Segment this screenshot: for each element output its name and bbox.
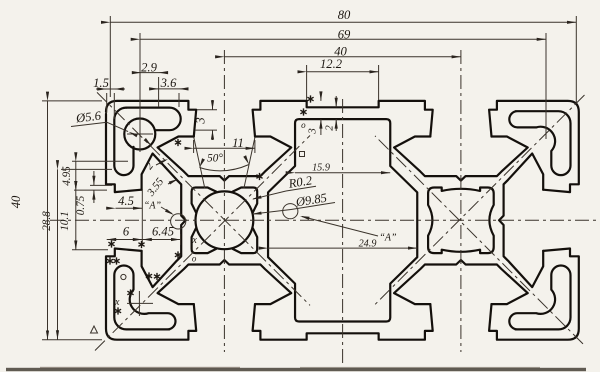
svg-text:x: x bbox=[191, 235, 197, 246]
svg-text:4.95: 4.95 bbox=[61, 166, 73, 186]
svg-text:3.6: 3.6 bbox=[160, 76, 177, 90]
vertical centerline right cell bbox=[460, 50, 462, 352]
dimension 40 line bbox=[224, 56, 461, 58]
central chamber cavity bbox=[268, 119, 417, 321]
svg-text:2: 2 bbox=[143, 160, 156, 172]
50 degree construction lines bbox=[194, 137, 205, 188]
dimension 40 left rotated bbox=[47, 101, 49, 340]
svg-text:15.9: 15.9 bbox=[312, 162, 330, 173]
right end slot cavity bbox=[499, 154, 543, 288]
svg-text:80: 80 bbox=[338, 8, 351, 22]
svg-text:“A”: “A” bbox=[379, 233, 397, 244]
top-left corner screw channel with bore Ø5.6 bbox=[124, 119, 155, 150]
svg-text:1.5: 1.5 bbox=[93, 76, 109, 90]
asterisk marks bbox=[175, 139, 181, 146]
dimension 3 rotated bbox=[212, 100, 214, 110]
left core bore with corner ear pockets bbox=[196, 191, 254, 249]
svg-text:“A”: “A” bbox=[144, 201, 162, 212]
svg-text:6: 6 bbox=[123, 225, 130, 239]
diagonal centerline TR-core bbox=[374, 95, 585, 306]
svg-text:x: x bbox=[114, 297, 120, 308]
dimension 4.5 bbox=[116, 207, 143, 209]
dimension 3.6 bbox=[150, 88, 188, 90]
svg-text:11: 11 bbox=[232, 136, 244, 150]
top slot cavity at left cell bbox=[158, 137, 292, 181]
svg-text:2.9: 2.9 bbox=[141, 60, 157, 74]
dimension 1.5 bbox=[96, 88, 125, 90]
diagonal centerline TL-core bbox=[97, 92, 310, 305]
svg-text:12.2: 12.2 bbox=[320, 57, 343, 71]
dimension 2.9 bbox=[132, 72, 168, 74]
svg-text:3.55: 3.55 bbox=[144, 175, 166, 199]
scan edge smudge bbox=[6, 368, 586, 371]
svg-text:24.9: 24.9 bbox=[359, 238, 377, 249]
bottom-left corner screw channel bbox=[114, 266, 175, 330]
svg-text:o: o bbox=[192, 254, 197, 264]
triangle mark bottom-left bbox=[91, 326, 98, 333]
svg-text:o: o bbox=[301, 120, 306, 130]
small hole marker in bottom-left channel bbox=[121, 274, 126, 279]
svg-text:40: 40 bbox=[9, 195, 23, 208]
dimension 15.9 bbox=[295, 172, 390, 174]
bottom slot cavity at right cell bbox=[394, 260, 528, 304]
svg-text:6.45: 6.45 bbox=[152, 225, 174, 239]
square mark center bbox=[300, 152, 305, 157]
svg-text:69: 69 bbox=[338, 27, 351, 41]
dimension 4.95 rotated bbox=[75, 162, 77, 191]
top slot cavity at right cell bbox=[394, 137, 528, 181]
left end slot cavity bbox=[142, 154, 186, 288]
dimension 11 bbox=[194, 147, 255, 149]
svg-text:50°: 50° bbox=[207, 153, 223, 165]
datum A left ball bbox=[171, 214, 186, 229]
profile outer boundary with slot openings bbox=[106, 101, 579, 340]
dimension 80 line bbox=[110, 21, 576, 23]
dimension 69 line bbox=[140, 38, 546, 40]
diagonal centerline BL-core bbox=[95, 136, 310, 351]
dimension 2 center bbox=[335, 96, 337, 107]
dimension 6 and 6.45 bbox=[107, 239, 181, 241]
bottom-right corner screw channel bbox=[509, 266, 570, 330]
datum A right ball bbox=[283, 204, 298, 219]
dimension 3 center bbox=[320, 94, 322, 101]
svg-text:3: 3 bbox=[194, 117, 208, 124]
svg-text:3: 3 bbox=[307, 128, 319, 135]
diagonal centerline BR-core bbox=[375, 136, 583, 344]
dimension 0.75 rotated bbox=[93, 171, 95, 185]
vertical centerline left cell bbox=[223, 50, 225, 352]
top-right corner screw channel bbox=[509, 111, 570, 175]
svg-text:0.75: 0.75 bbox=[75, 195, 87, 215]
vertical centerline middle bbox=[342, 99, 344, 365]
bottom slot cavity at left cell bbox=[158, 260, 292, 304]
dimension 24.9 bbox=[268, 247, 417, 249]
svg-text:4.5: 4.5 bbox=[118, 194, 134, 208]
dimension 12.2 line bbox=[307, 71, 379, 73]
right core pillow cavity bbox=[428, 188, 494, 254]
bottom-left bore centre ticks bbox=[127, 302, 153, 304]
dimension 10.1 rotated bbox=[75, 190, 77, 250]
svg-text:10.1: 10.1 bbox=[59, 211, 71, 231]
svg-text:2: 2 bbox=[324, 125, 336, 131]
dimension 28.8 rotated bbox=[57, 169, 59, 339]
horizontal centerline bbox=[50, 219, 597, 221]
